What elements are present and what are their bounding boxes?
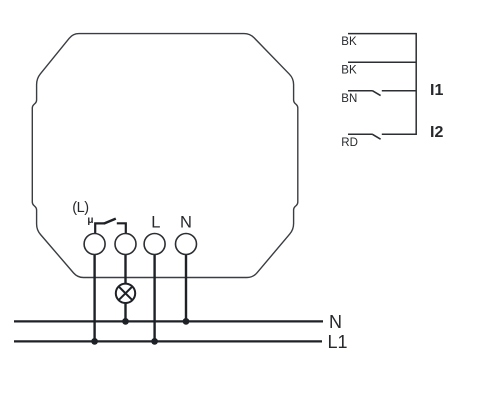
relay contact left terminal xyxy=(95,223,104,234)
pigtail wire BK 1 xyxy=(348,33,416,35)
terminal circle 2 xyxy=(115,234,136,255)
pigtail wire BN left xyxy=(348,90,373,92)
terminal circle 4 (N) xyxy=(176,234,197,255)
wire from terminal L down to L1 xyxy=(153,254,155,341)
svg-text:μ: μ xyxy=(87,215,93,226)
N bus line xyxy=(14,320,323,322)
wire from terminal 1 down to L1 xyxy=(93,254,95,341)
terminal circle 1 xyxy=(84,234,105,255)
pigtail wire BK 2 xyxy=(348,61,416,63)
svg-text:BK: BK xyxy=(341,64,357,76)
switch blade BN xyxy=(373,91,381,96)
pigtail bus vertical xyxy=(415,33,417,135)
pigtail wire BN right xyxy=(382,90,416,92)
svg-text:I1: I1 xyxy=(430,82,443,99)
lamp E1 cross xyxy=(119,287,133,301)
wire from terminal 2 down to lamp xyxy=(124,254,126,284)
svg-text:L: L xyxy=(151,213,160,231)
relay contact blade xyxy=(104,219,116,224)
pigtail wire RD left xyxy=(348,133,373,135)
svg-text:BK: BK xyxy=(341,36,357,48)
junction dot wire1-L1 xyxy=(91,338,98,345)
svg-text:RD: RD xyxy=(341,137,358,149)
terminal circle 3 (L) xyxy=(144,234,165,255)
L1 bus line xyxy=(14,340,322,342)
switch blade RD xyxy=(373,134,381,139)
junction dot terminalN-N xyxy=(183,318,190,325)
junction dot wireL-L1 xyxy=(151,338,158,345)
svg-text:N: N xyxy=(329,312,342,332)
lamp E1 circle xyxy=(116,284,135,303)
svg-text:BN: BN xyxy=(341,93,357,105)
wire from terminal N down to N line xyxy=(185,254,187,321)
svg-text:I2: I2 xyxy=(430,124,443,141)
svg-text:N: N xyxy=(180,213,192,231)
pigtail wire RD right xyxy=(382,133,416,135)
wire from lamp down to N line xyxy=(124,303,126,322)
device outline (flush-mount actuator body) xyxy=(32,34,298,278)
svg-text:(L): (L) xyxy=(72,200,88,216)
junction dot lamp-N xyxy=(122,318,129,325)
svg-text:L1: L1 xyxy=(328,332,348,352)
relay contact right terminal xyxy=(117,223,126,234)
